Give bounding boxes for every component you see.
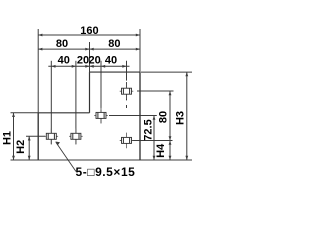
- svg-text:20: 20: [88, 55, 100, 67]
- svg-text:80: 80: [157, 111, 169, 123]
- svg-text:40: 40: [58, 55, 70, 67]
- svg-text:5-□9.5×15: 5-□9.5×15: [76, 165, 136, 179]
- svg-text:72.5: 72.5: [143, 119, 155, 140]
- svg-text:H3: H3: [174, 111, 186, 125]
- svg-text:H1: H1: [2, 131, 14, 145]
- svg-text:H2: H2: [15, 140, 27, 154]
- svg-text:40: 40: [105, 55, 117, 67]
- svg-text:80: 80: [108, 38, 120, 50]
- svg-text:20: 20: [77, 55, 89, 67]
- svg-text:160: 160: [80, 25, 98, 37]
- svg-text:H4: H4: [155, 143, 167, 158]
- svg-text:80: 80: [56, 38, 68, 50]
